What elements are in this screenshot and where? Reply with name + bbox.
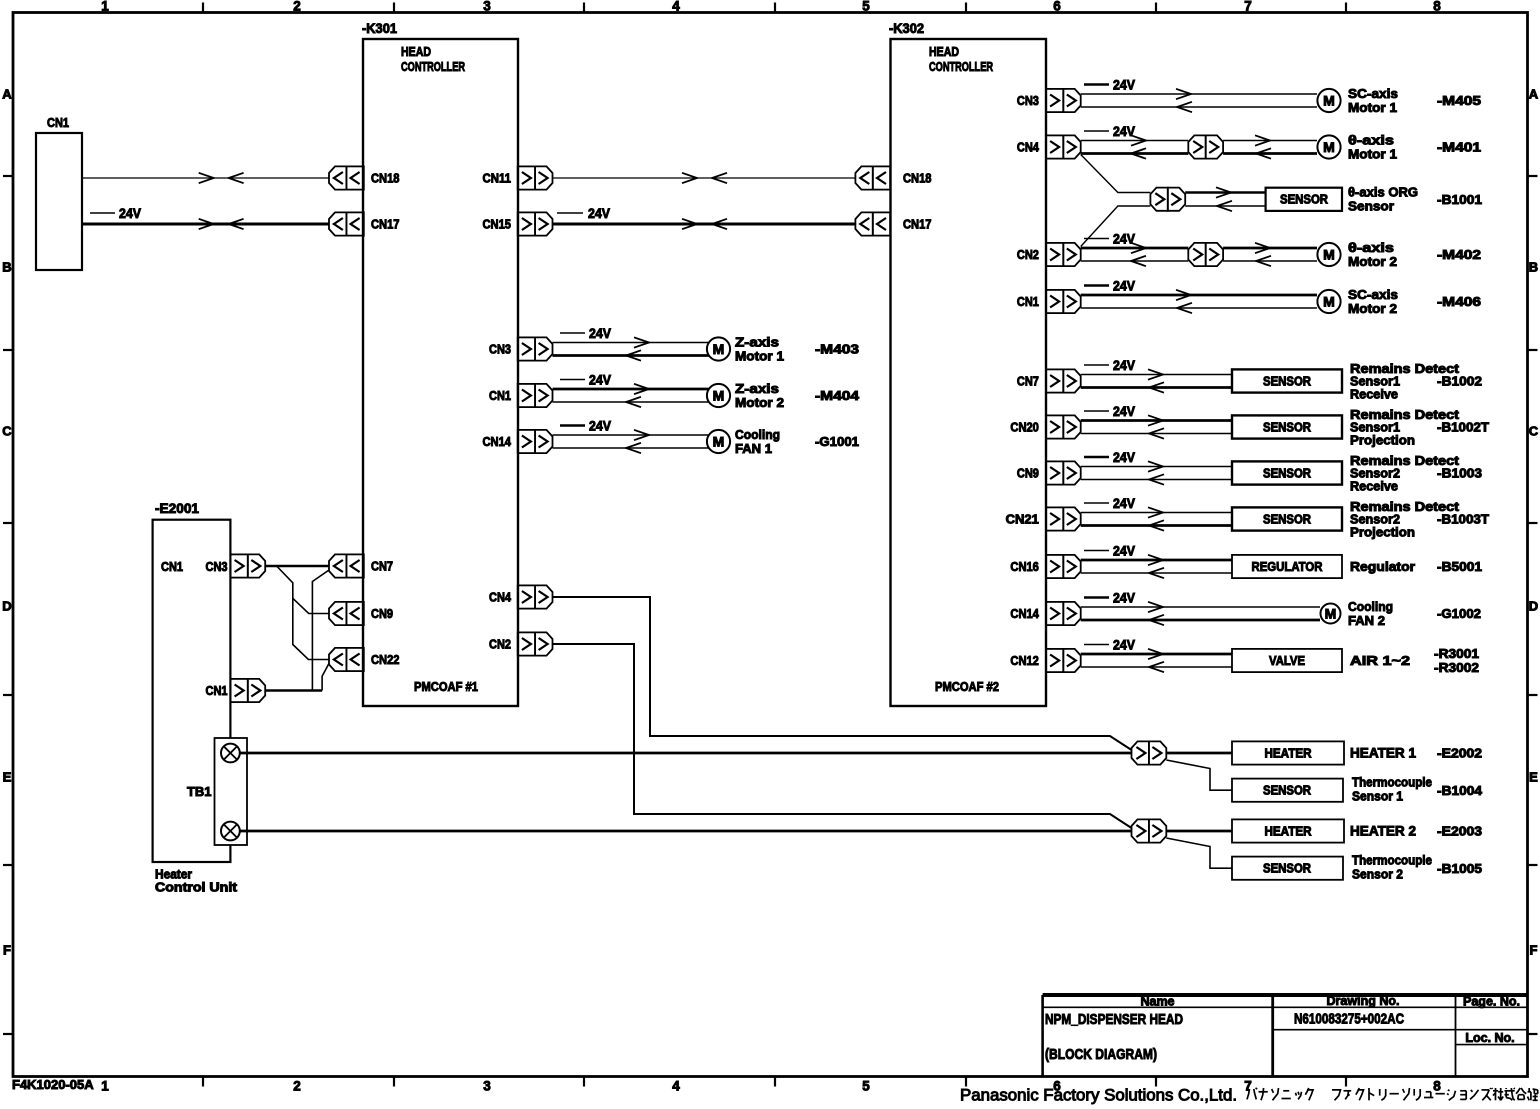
- svg-text:-E2001: -E2001: [155, 501, 199, 516]
- svg-text:A: A: [2, 87, 12, 102]
- svg-text:M: M: [713, 388, 725, 404]
- svg-text:E: E: [3, 770, 12, 785]
- svg-text:24V: 24V: [1113, 358, 1135, 373]
- svg-text:Z-axis: Z-axis: [735, 381, 779, 396]
- svg-text:24V: 24V: [589, 373, 611, 388]
- svg-text:CN2: CN2: [489, 637, 511, 652]
- svg-text:Receive: Receive: [1350, 478, 1398, 493]
- svg-text:CN3: CN3: [1017, 93, 1039, 108]
- svg-text:SENSOR: SENSOR: [1263, 375, 1311, 389]
- svg-text:Motor 1: Motor 1: [1348, 147, 1397, 162]
- svg-text:8: 8: [1433, 1079, 1441, 1094]
- svg-text:Sensor: Sensor: [1348, 199, 1394, 214]
- svg-text:-G1001: -G1001: [815, 434, 859, 449]
- svg-text:6: 6: [1053, 0, 1061, 14]
- svg-text:M: M: [1325, 606, 1337, 622]
- svg-text:-M405: -M405: [1437, 93, 1481, 108]
- svg-text:Motor 1: Motor 1: [735, 349, 784, 364]
- svg-text:Control Unit: Control Unit: [155, 881, 238, 895]
- svg-text:2: 2: [293, 0, 301, 14]
- svg-text:M: M: [713, 341, 725, 357]
- svg-text:CN4: CN4: [489, 590, 512, 605]
- svg-text:CN3: CN3: [489, 342, 511, 357]
- svg-text:24V: 24V: [588, 206, 610, 221]
- svg-text:4: 4: [672, 1079, 680, 1094]
- svg-text:CONTROLLER: CONTROLLER: [401, 59, 465, 74]
- svg-text:F: F: [3, 943, 11, 958]
- svg-text:Projection: Projection: [1350, 432, 1415, 447]
- svg-text:-M401: -M401: [1437, 140, 1481, 155]
- svg-text:CN18: CN18: [371, 171, 400, 186]
- svg-text:-B1002: -B1002: [1437, 374, 1482, 389]
- svg-text:24V: 24V: [1113, 232, 1135, 247]
- svg-text:4: 4: [672, 0, 680, 14]
- svg-text:F: F: [1530, 943, 1538, 958]
- svg-text:SENSOR: SENSOR: [1263, 513, 1311, 527]
- svg-text:Drawing No.: Drawing No.: [1327, 994, 1400, 1008]
- svg-text:-B1003T: -B1003T: [1437, 512, 1489, 527]
- svg-text:M: M: [1323, 247, 1335, 263]
- svg-text:CN1: CN1: [489, 388, 511, 403]
- svg-text:Cooling: Cooling: [735, 427, 780, 442]
- svg-text:SENSOR: SENSOR: [1263, 421, 1311, 435]
- svg-text:D: D: [2, 599, 11, 614]
- svg-text:HEATER 2: HEATER 2: [1350, 824, 1416, 839]
- svg-text:CN20: CN20: [1010, 420, 1039, 435]
- svg-text:CN3: CN3: [206, 559, 228, 574]
- svg-text:-E2002: -E2002: [1437, 746, 1482, 761]
- svg-text:CN14: CN14: [483, 434, 512, 449]
- svg-text:CN12: CN12: [1010, 653, 1039, 668]
- svg-text:Sensor 1: Sensor 1: [1352, 789, 1403, 804]
- svg-text:(BLOCK DIAGRAM): (BLOCK DIAGRAM): [1045, 1046, 1157, 1063]
- svg-text:CN14: CN14: [1010, 606, 1039, 621]
- svg-text:Name: Name: [1140, 995, 1174, 1009]
- svg-text:θ-axis: θ-axis: [1348, 133, 1394, 148]
- svg-text:SENSOR: SENSOR: [1280, 193, 1328, 207]
- svg-text:-B1001: -B1001: [1437, 192, 1482, 207]
- svg-text:M: M: [713, 434, 725, 450]
- svg-text:CN21: CN21: [1006, 512, 1039, 527]
- svg-text:Motor 2: Motor 2: [735, 395, 784, 410]
- svg-text:24V: 24V: [1113, 496, 1135, 511]
- svg-text:-B1002T: -B1002T: [1437, 420, 1489, 435]
- svg-text:-M406: -M406: [1437, 294, 1481, 309]
- svg-text:8: 8: [1433, 0, 1441, 14]
- svg-text:-R3002: -R3002: [1434, 660, 1479, 675]
- svg-text:N610083275+002AC: N610083275+002AC: [1294, 1011, 1404, 1028]
- svg-text:Sensor 2: Sensor 2: [1352, 867, 1403, 882]
- svg-text:SENSOR: SENSOR: [1263, 862, 1311, 876]
- svg-text:Motor 2: Motor 2: [1348, 254, 1397, 269]
- svg-text:1: 1: [101, 1079, 109, 1094]
- svg-text:7: 7: [1244, 1079, 1252, 1094]
- svg-text:CN4: CN4: [1017, 140, 1040, 155]
- svg-text:-B1004: -B1004: [1437, 783, 1483, 798]
- svg-text:5: 5: [862, 1079, 870, 1094]
- svg-text:-G1002: -G1002: [1437, 606, 1481, 621]
- svg-text:-K301: -K301: [362, 21, 397, 36]
- svg-text:CN7: CN7: [371, 559, 393, 574]
- svg-text:FAN 2: FAN 2: [1348, 613, 1385, 628]
- svg-text:AIR 1~2: AIR 1~2: [1350, 653, 1410, 668]
- svg-text:CN9: CN9: [1017, 466, 1039, 481]
- svg-text:Z-axis: Z-axis: [735, 335, 779, 350]
- svg-text:5: 5: [862, 0, 870, 14]
- svg-text:M: M: [1323, 139, 1335, 155]
- svg-text:-M403: -M403: [815, 342, 859, 357]
- svg-text:CONTROLLER: CONTROLLER: [929, 59, 993, 74]
- svg-text:CN1: CN1: [1017, 294, 1039, 309]
- svg-text:SENSOR: SENSOR: [1263, 784, 1311, 798]
- svg-text:CN1: CN1: [161, 559, 183, 574]
- svg-text:CN11: CN11: [483, 171, 512, 186]
- svg-text:PMCOAF #2: PMCOAF #2: [935, 679, 999, 694]
- svg-text:Loc. No.: Loc. No.: [1465, 1031, 1514, 1045]
- svg-text:SENSOR: SENSOR: [1263, 467, 1311, 481]
- svg-text:Regulator: Regulator: [1350, 559, 1415, 574]
- svg-text:-B1003: -B1003: [1437, 466, 1482, 481]
- svg-text:-R3001: -R3001: [1434, 646, 1479, 661]
- svg-text:M: M: [1323, 294, 1335, 310]
- svg-text:HEATER: HEATER: [1265, 825, 1312, 839]
- svg-text:A: A: [1529, 87, 1539, 102]
- svg-text:3: 3: [483, 0, 491, 14]
- svg-text:θ-axis: θ-axis: [1348, 240, 1394, 255]
- svg-text:CN1: CN1: [47, 115, 69, 130]
- svg-text:CN17: CN17: [903, 217, 932, 232]
- svg-text:2: 2: [293, 1079, 301, 1094]
- svg-text:24V: 24V: [1113, 78, 1135, 93]
- svg-text:C: C: [1529, 424, 1539, 439]
- svg-text:7: 7: [1244, 0, 1252, 14]
- svg-text:CN15: CN15: [483, 217, 512, 232]
- svg-text:24V: 24V: [1113, 279, 1135, 294]
- svg-text:-K302: -K302: [889, 21, 924, 36]
- svg-text:24V: 24V: [1113, 450, 1135, 465]
- svg-text:C: C: [2, 424, 12, 439]
- svg-text:-M404: -M404: [815, 388, 860, 403]
- svg-text:CN16: CN16: [1010, 559, 1039, 574]
- svg-text:FAN 1: FAN 1: [735, 441, 772, 456]
- svg-text:24V: 24V: [589, 419, 611, 434]
- svg-text:24V: 24V: [1113, 638, 1135, 653]
- svg-text:24V: 24V: [1113, 591, 1135, 606]
- svg-text:CN1: CN1: [206, 683, 228, 698]
- svg-text:24V: 24V: [119, 206, 141, 221]
- svg-text:HEATER: HEATER: [1265, 747, 1312, 761]
- svg-text:24V: 24V: [1113, 404, 1135, 419]
- svg-text:Page. No.: Page. No.: [1463, 995, 1520, 1009]
- svg-text:CN17: CN17: [371, 217, 400, 232]
- svg-text:24V: 24V: [1113, 544, 1135, 559]
- svg-text:24V: 24V: [1113, 124, 1135, 139]
- svg-text:CN9: CN9: [371, 606, 393, 621]
- svg-text:CN7: CN7: [1017, 374, 1039, 389]
- svg-text:-E2003: -E2003: [1437, 824, 1482, 839]
- svg-text:Cooling: Cooling: [1348, 599, 1393, 614]
- svg-text:CN22: CN22: [371, 652, 400, 667]
- svg-text:Projection: Projection: [1350, 524, 1415, 539]
- svg-text:3: 3: [483, 1079, 491, 1094]
- svg-text:HEATER 1: HEATER 1: [1350, 746, 1416, 761]
- svg-text:D: D: [1529, 599, 1538, 614]
- svg-text:HEAD: HEAD: [401, 44, 431, 59]
- svg-text:Motor 2: Motor 2: [1348, 301, 1397, 316]
- svg-text:θ-axis ORG: θ-axis ORG: [1348, 185, 1418, 200]
- svg-text:Heater: Heater: [155, 868, 192, 882]
- svg-text:NPM_DISPENSER HEAD: NPM_DISPENSER HEAD: [1045, 1011, 1183, 1028]
- svg-text:VALVE: VALVE: [1269, 654, 1305, 668]
- svg-text:B: B: [1529, 260, 1538, 275]
- svg-text:Receive: Receive: [1350, 386, 1398, 401]
- svg-text:SC-axis: SC-axis: [1348, 86, 1398, 101]
- svg-text:TB1: TB1: [187, 784, 212, 799]
- svg-text:M: M: [1323, 93, 1335, 109]
- svg-text:PMCOAF #1: PMCOAF #1: [414, 679, 478, 694]
- svg-text:-B5001: -B5001: [1437, 559, 1482, 574]
- svg-text:CN2: CN2: [1017, 247, 1039, 262]
- svg-text:HEAD: HEAD: [929, 44, 959, 59]
- svg-text:E: E: [1529, 770, 1538, 785]
- svg-text:Panasonic Factory Solutions: Panasonic Factory Solutions Co.,Ltd.: [960, 1087, 1237, 1105]
- svg-text:Thermocouple: Thermocouple: [1352, 853, 1432, 868]
- svg-text:CN18: CN18: [903, 171, 932, 186]
- svg-text:REGULATOR: REGULATOR: [1252, 560, 1323, 574]
- svg-text:-M402: -M402: [1437, 247, 1481, 262]
- svg-text:Thermocouple: Thermocouple: [1352, 775, 1432, 790]
- svg-text:B: B: [2, 260, 11, 275]
- svg-text:SC-axis: SC-axis: [1348, 287, 1398, 302]
- svg-text:24V: 24V: [589, 326, 611, 341]
- svg-text:-B1005: -B1005: [1437, 861, 1482, 876]
- svg-text:F4K1020-05A: F4K1020-05A: [12, 1077, 94, 1092]
- svg-text:Motor 1: Motor 1: [1348, 100, 1397, 115]
- svg-text:1: 1: [101, 0, 109, 14]
